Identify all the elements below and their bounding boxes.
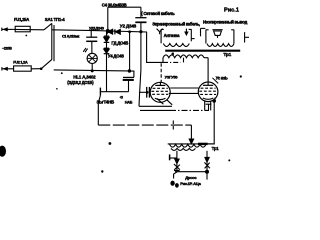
- speck dot 5: [228, 159, 230, 161]
- svg-text:УЗГУ50: УЗГУ50: [165, 74, 179, 79]
- wire to Tr2 with arrow: [190, 125, 192, 140]
- wire main vertical: [139, 22, 141, 106]
- capacitor C1: [86, 37, 97, 41]
- svg-text:Ус нзЬ: Ус нзЬ: [216, 75, 228, 80]
- plug pin X1 top: [2, 28, 14, 31]
- speck dot 4: [61, 72, 63, 74]
- tube V2 top lead: [207, 58, 209, 86]
- transformer Tr1 left box: [161, 29, 195, 43]
- transformer Tr2 thick segment: [198, 143, 208, 145]
- svg-text:Рис.1Р. АЦа: Рис.1Р. АЦа: [180, 181, 201, 186]
- blob ink margin: [0, 146, 6, 157]
- wire right lead lower: [206, 162, 208, 180]
- node V2 out junction: [212, 99, 216, 103]
- wire VD4 down across bus: [106, 54, 108, 92]
- node right lead junction: [205, 170, 209, 174]
- transformer Tr2 top line: [168, 143, 215, 145]
- terminal stub: [170, 154, 177, 160]
- wire left lead lower: [174, 164, 177, 179]
- transformer Tr1 core: [165, 50, 240, 52]
- wire to second vertical: [147, 32, 163, 62]
- svg-text:FU2 1,2А: FU2 1,2А: [13, 60, 28, 64]
- svg-text:Тр1: Тр1: [223, 52, 231, 58]
- svg-text:Изолированный вывод: Изолированный вывод: [203, 20, 248, 25]
- wire V2 down to Tr2: [208, 101, 215, 144]
- svg-text:FU1,25A: FU1,25A: [14, 17, 29, 22]
- node junction C4 branch: [106, 29, 110, 33]
- diode VD2: [115, 29, 120, 34]
- pin cross left: [174, 164, 180, 171]
- svg-text:У2 Д348: У2 Д348: [120, 24, 137, 29]
- svg-text:ГД ДО4Б: ГД ДО4Б: [111, 41, 128, 46]
- transformer Tr1 left winding: [163, 44, 189, 47]
- wire chassis dash-dot: [170, 109, 209, 111]
- wire shield dashed vertical: [172, 121, 174, 132]
- wire fuse FU1 to switch: [14, 28, 44, 30]
- svg-text:НL1 А,3402: НL1 А,3402: [73, 74, 96, 79]
- wire lower horizontal: [100, 91, 128, 93]
- capacitor C3: [123, 77, 134, 91]
- tube V1 cathode: [155, 98, 166, 99]
- wire Tr2 left lead: [176, 151, 178, 160]
- capacitor C5 coupling: [139, 87, 150, 98]
- node dot after label: [240, 75, 242, 77]
- wire dash-dot to transformer: [163, 61, 181, 63]
- tube V1 leads bottom: [157, 98, 172, 104]
- wire C4 branch vertical: [107, 7, 109, 31]
- node junction main vertical: [139, 30, 142, 33]
- svg-text:Экранированный кабель,: Экранированный кабель,: [152, 21, 200, 26]
- wire fuse FU2 to switch: [31, 68, 41, 70]
- connector tick right: [245, 32, 249, 42]
- wire chassis line2: [140, 109, 170, 111]
- speck dot 3: [25, 35, 27, 37]
- svg-text:Тр1: Тр1: [212, 146, 220, 151]
- svg-text:( Сетевой кабель: ( Сетевой кабель: [141, 11, 175, 16]
- tube V2 grids: [199, 88, 217, 94]
- tube V1 grids: [151, 88, 169, 94]
- svg-text:УД1Д243: УД1Д243: [89, 26, 105, 31]
- svg-text:C4 30,0x450B: C4 30,0x450B: [102, 3, 127, 8]
- fuse FU2: [14, 66, 32, 71]
- connector tick mid: [201, 28, 206, 36]
- svg-text:~220В: ~220В: [2, 46, 12, 50]
- node lamp bus junction: [91, 69, 94, 72]
- capacitor C1 lead: [90, 31, 92, 38]
- wire between VD3 VD4: [106, 42, 108, 48]
- svg-text:Дроос: Дроос: [185, 175, 197, 180]
- wire bottom bus Tr2: [175, 171, 207, 173]
- diode VD1: [107, 29, 112, 34]
- jack symbol: [212, 30, 222, 38]
- diode VD4: [104, 48, 110, 54]
- diode VD3: [104, 31, 110, 42]
- fuse FU1: [15, 26, 30, 32]
- pin cross right: [204, 162, 210, 168]
- wire top horizontal: [108, 6, 141, 8]
- wire down to dashed line: [98, 95, 100, 125]
- tube V2 cathode: [203, 98, 214, 99]
- tube V1 grid lead dashed: [160, 63, 162, 82]
- node bar terminal: [99, 88, 101, 96]
- wire V2 anode out: [214, 98, 215, 101]
- wire tubes link top: [170, 87, 198, 89]
- node junction C3 vertical top: [128, 30, 131, 33]
- transformer Tr2 winding row2: [171, 148, 195, 150]
- node winding tap dot: [172, 53, 174, 55]
- tube V2 heater pins: [205, 101, 212, 111]
- wire bottom bus: [54, 70, 130, 71]
- speck dot 6: [56, 88, 58, 90]
- arrow on left lead: [175, 159, 179, 164]
- tube V2 anode: [203, 84, 213, 86]
- pointer Y to left box: [157, 29, 163, 35]
- svg-text:Антенна: Антенна: [164, 33, 180, 38]
- node switch contact: [40, 67, 43, 70]
- wire V2 pointer: [212, 78, 218, 84]
- wire Tr2 right lead: [206, 151, 208, 158]
- arrow mark near lamp: [83, 48, 87, 52]
- switch SA1 blade bottom: [41, 59, 52, 68]
- lamp HL1: [87, 53, 97, 71]
- node bus C3 junction: [128, 69, 131, 72]
- tube V1 anode: [155, 83, 165, 86]
- svg-text:С1 0,013мк: С1 0,013мк: [62, 34, 79, 38]
- arrow onto Tr2: [189, 139, 193, 144]
- blob ink right: [175, 183, 179, 188]
- wire top rail: [52, 30, 147, 32]
- speck dot 2: [101, 170, 103, 172]
- plug pin X2 bottom: [2, 67, 14, 70]
- switch SA1 blade top: [44, 23, 52, 30]
- tube V2 envelope: [198, 82, 218, 102]
- svg-text:НАБ: НАБ: [125, 101, 133, 105]
- blob ink left: [170, 181, 174, 186]
- svg-text:У4 ДО48: У4 ДО48: [108, 54, 125, 59]
- transformer Tr2 winding row1: [170, 144, 207, 147]
- wire chassis corner: [139, 105, 172, 107]
- switch SA1 linkage: [52, 24, 54, 62]
- transformer Tr1 heater winding: [163, 55, 208, 63]
- wire C1 to lamp: [91, 41, 93, 53]
- svg-text:(ЗД18,2 ДО1Б): (ЗД18,2 ДО1Б): [67, 80, 94, 85]
- arrow on right lead: [205, 157, 209, 162]
- node C5 junction: [146, 91, 149, 94]
- svg-text:Рис.1: Рис.1: [224, 7, 239, 13]
- tube V1 envelope: [150, 82, 170, 102]
- transformer Tr1 right box: [206, 30, 234, 44]
- speck dot 1: [109, 142, 112, 145]
- wire C3 branch vertical: [130, 32, 134, 77]
- svg-text:SA1 ТП1-4: SA1 ТП1-4: [45, 17, 66, 22]
- wire tubes link bottom: [169, 92, 199, 94]
- pointer arrow to left box right: [185, 29, 188, 35]
- wire dashed bottom horizontal: [98, 124, 191, 126]
- capacitor C4: [135, 7, 146, 22]
- transformer Tr1 right winding: [207, 44, 234, 47]
- svg-text:‹З: ‹З: [120, 96, 124, 100]
